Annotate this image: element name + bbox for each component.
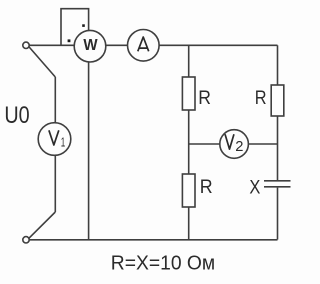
- svg-text:U0: U0: [4, 102, 29, 129]
- wire: W down to bottom wire: [88, 62, 90, 240]
- wire: A to top-right corner: [159, 44, 277, 46]
- wattmeter polarity dot 2: [68, 39, 71, 42]
- label V2 (glyph path): [225, 134, 234, 149]
- wire top: terminal to W: [29, 44, 74, 46]
- svg-text:1: 1: [61, 134, 66, 149]
- label V1 (glyph path): [49, 130, 59, 145]
- voltmeter V1 circle: [38, 123, 71, 156]
- terminal top-left: [23, 42, 29, 48]
- resistor R1 (middle top): [182, 77, 195, 110]
- svg-text:X: X: [249, 176, 260, 198]
- wattmeter polarity dot 1: [82, 24, 85, 27]
- wattmeter U1 circle: [74, 30, 106, 62]
- wire: right branch to capacitor: [277, 116, 279, 180]
- voltmeter V2 circle: [220, 130, 249, 159]
- wattmeter voltage branch rectangle: [61, 9, 89, 46]
- ammeter A circle: [128, 30, 160, 62]
- wire: capacitor to bottom wire: [277, 188, 279, 240]
- svg-text:R=X=10 Ом: R=X=10 Ом: [111, 252, 215, 274]
- capacitor X plates: [264, 181, 291, 187]
- wire: W to A: [106, 44, 128, 46]
- label A (glyph path): [138, 37, 149, 51]
- wire: V1 to lower diagonal: [54, 155, 56, 212]
- svg-text:R: R: [200, 176, 213, 198]
- wire: right branch top: [277, 45, 279, 85]
- wire: middle branch top: [188, 45, 190, 77]
- wire: diagonal to bottom terminal: [29, 212, 56, 239]
- svg-text:2: 2: [235, 139, 243, 155]
- wire: down to V1: [54, 77, 56, 123]
- terminal bottom-left: [23, 237, 29, 243]
- wire: bottom: [29, 239, 277, 241]
- resistor R2 (middle bottom): [182, 174, 195, 207]
- svg-text:R: R: [198, 87, 211, 109]
- wire: middle branch bottom: [188, 207, 190, 240]
- svg-text:W: W: [83, 37, 98, 54]
- wire: V2 right: [248, 143, 277, 145]
- resistor R3 (right): [271, 85, 284, 116]
- wire: diagonal from top terminal: [29, 47, 56, 77]
- wire: V2 left: [189, 143, 220, 145]
- svg-text:R: R: [255, 87, 267, 109]
- wire: middle branch mid: [188, 110, 190, 174]
